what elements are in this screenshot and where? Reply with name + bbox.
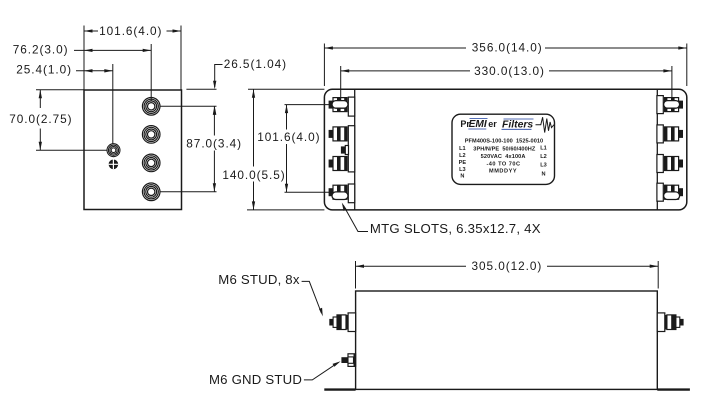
ground stud left (top view) xyxy=(341,146,349,155)
dim 70.0(2.75): top extension line xyxy=(36,89,84,91)
svg-text:87.0(3.4): 87.0(3.4) xyxy=(186,137,242,151)
svg-text:L3: L3 xyxy=(540,162,547,168)
logo Filters overline and underline xyxy=(502,119,534,129)
svg-text:L1: L1 xyxy=(459,146,466,152)
dim 70.0(2.75): dimension line with arrows xyxy=(39,90,41,108)
extension line main box top level (left short) xyxy=(186,88,216,90)
MTG SLOTS leader xyxy=(343,205,368,232)
dim 76.2(3.0): dimension line with arrows xyxy=(74,49,151,51)
dim 356.0(14.0): dimension line xyxy=(324,47,466,49)
stud plates right (4 separate) xyxy=(657,96,663,202)
svg-text:140.0(5.5): 140.0(5.5) xyxy=(222,168,285,182)
terminal T1 (end view) xyxy=(142,98,160,116)
dim 76.2(3.0): extension line at terminal axis xyxy=(150,44,152,102)
dim 87.0(3.4): dimension line with arrows xyxy=(213,106,215,135)
svg-text:EMI: EMI xyxy=(469,119,487,130)
svg-text:356.0(14.0): 356.0(14.0) xyxy=(472,41,543,55)
stud L3 (top view) xyxy=(329,156,348,171)
stud L4 (top view) xyxy=(329,185,348,200)
ground stud (end view) xyxy=(107,144,120,157)
stud R1 (top view) xyxy=(665,97,684,112)
svg-text:M6 STUD, 8x: M6 STUD, 8x xyxy=(218,272,300,287)
svg-text:M6 GND STUD: M6 GND STUD xyxy=(209,372,302,387)
logo waveform xyxy=(536,117,555,132)
svg-text:76.2(3.0): 76.2(3.0) xyxy=(13,42,69,56)
stud right (side view) xyxy=(657,313,683,332)
stud R2 (top view) xyxy=(665,126,684,141)
MTG slot bottom-right xyxy=(664,192,680,200)
svg-text:3PH/N/PE 50/60/400HZ: 3PH/N/PE 50/60/400HZ xyxy=(473,146,536,152)
dim 25.4(1.0): extension line at ground stud axis xyxy=(112,64,114,144)
extension line main box top level (to 140 dim) xyxy=(248,88,324,90)
svg-text:MTG SLOTS, 6.35x12.7, 4X: MTG SLOTS, 6.35x12.7, 4X xyxy=(370,221,541,236)
stud left (side view) xyxy=(329,313,355,332)
ground symbol xyxy=(109,160,119,170)
nameplate label outline xyxy=(452,114,555,184)
right flange divider xyxy=(656,89,658,210)
svg-text:L3: L3 xyxy=(459,167,466,173)
main top view outline xyxy=(324,89,686,210)
svg-text:101.6(4.0): 101.6(4.0) xyxy=(99,24,162,38)
dim 330.0(13.0): extension lines xyxy=(341,66,672,101)
svg-text:PE: PE xyxy=(459,160,467,166)
svg-text:MMDDYY: MMDDYY xyxy=(489,168,517,174)
stud R3 (top view) xyxy=(665,156,684,171)
leader line from T4 to 87 dim xyxy=(160,191,217,193)
stud R4 (top view) xyxy=(665,185,684,200)
dim 356.0(14.0): extension lines xyxy=(324,44,686,87)
svg-text:101.6(4.0): 101.6(4.0) xyxy=(257,130,320,144)
left flange divider xyxy=(354,89,356,210)
terminal T2 (end view) xyxy=(142,126,160,144)
dim 25.4(1.0): dimension line with arrows xyxy=(76,70,113,72)
svg-text:N: N xyxy=(460,174,464,180)
svg-text:520VAC 4x100A: 520VAC 4x100A xyxy=(481,154,526,160)
svg-text:L2: L2 xyxy=(459,153,466,159)
left end view outline xyxy=(84,90,182,210)
bottom side view outline xyxy=(356,291,658,389)
leader line stud row1 (to 101.6 dim) xyxy=(285,104,330,106)
dim 101.6(4.0) end view top: dimension line with arrows xyxy=(84,30,98,32)
svg-text:L1: L1 xyxy=(540,146,547,152)
dim 101.6(4.0) vertical: dimension line with arrows xyxy=(286,105,288,130)
dim 305.0(12.0): extension lines xyxy=(356,261,659,289)
terminal T4 (end view) xyxy=(142,183,160,201)
MTG slot top-left xyxy=(332,101,348,109)
svg-text:-40 TO 70C: -40 TO 70C xyxy=(486,161,520,167)
logo EMI overline and underline xyxy=(468,119,487,130)
svg-text:PFM400S-100-100 1525-0010: PFM400S-100-100 1525-0010 xyxy=(465,139,543,145)
dim 101.6(4.0) end view top: extension lines xyxy=(84,26,181,90)
svg-text:70.0(2.75): 70.0(2.75) xyxy=(9,112,72,126)
svg-text:330.0(13.0): 330.0(13.0) xyxy=(474,64,545,78)
stud L2 (top view) xyxy=(329,126,348,141)
stud plate rows2-3 left (shared with ground stud) xyxy=(348,126,354,172)
MTG slot top-right xyxy=(664,101,680,109)
dim 70.0(2.75): leader from ground stud xyxy=(36,149,108,151)
stud plate row1 left xyxy=(348,97,354,116)
M6 GND STUD leader xyxy=(304,363,338,380)
svg-text:26.5(1.04): 26.5(1.04) xyxy=(224,57,287,71)
svg-text:L2: L2 xyxy=(540,154,547,160)
dim 305.0(12.0): dimension line xyxy=(356,265,467,267)
svg-text:N: N xyxy=(541,171,545,177)
extension line main box bottom level (to 140 dim) xyxy=(247,209,324,211)
M6 STUD leader xyxy=(302,281,322,313)
ground stud (side view) xyxy=(341,354,355,367)
stud plate row4 left xyxy=(348,184,354,203)
svg-text:Filters: Filters xyxy=(502,120,533,131)
base plate right stub xyxy=(657,388,690,390)
svg-text:er: er xyxy=(488,119,497,129)
dim 330.0(13.0): dimension line xyxy=(341,70,470,72)
terminal T3 (end view) xyxy=(142,154,160,172)
dim 26.5(1.04): leader and outside arrows xyxy=(215,65,223,88)
base plate left stub xyxy=(324,388,355,390)
svg-text:25.4(1.0): 25.4(1.0) xyxy=(16,63,72,77)
leader line stud row4 (to 101.6 dim) xyxy=(285,191,330,193)
dim 140.0(5.5): dimension line with arrows xyxy=(253,89,255,166)
stud L1 (top view) xyxy=(329,97,348,112)
leader line from T1 to 87 dim xyxy=(160,105,217,107)
MTG slot bottom-left xyxy=(332,192,348,200)
svg-text:305.0(12.0): 305.0(12.0) xyxy=(472,259,543,273)
